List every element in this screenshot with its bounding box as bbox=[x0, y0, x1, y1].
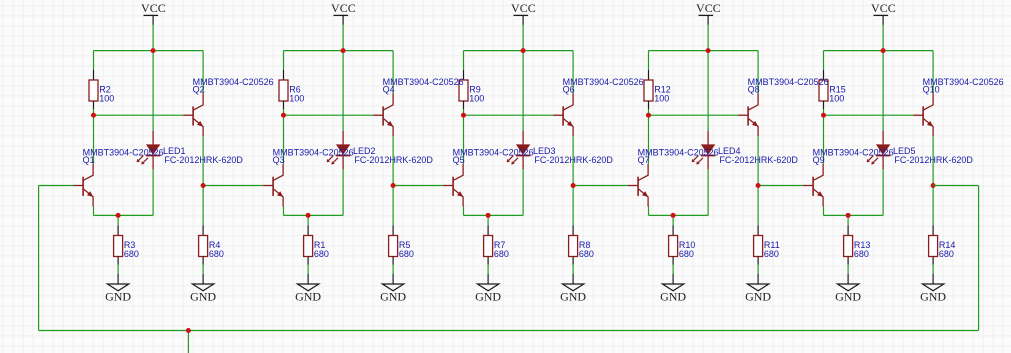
wire LED5 cathode down bbox=[882, 169, 884, 215]
wire LED4 cathode down bbox=[707, 169, 709, 215]
LED LED2 (FC-2012HRK-620D) bbox=[327, 131, 351, 169]
transistor Q1 (NPN MMBT3904) bbox=[73, 164, 93, 207]
svg-text:680: 680 bbox=[494, 249, 509, 259]
wire emitter of Q5 down bbox=[463, 206, 465, 215]
junction R7 top bbox=[486, 213, 491, 218]
wire down to R3 bbox=[117, 215, 119, 225]
ground symbol GND (R7) bbox=[477, 274, 498, 291]
junction R2 bottom / Q2 base bbox=[91, 113, 96, 118]
junction Q10 emitter / R14 bbox=[931, 183, 936, 188]
junction R15 bottom / Q10 base bbox=[821, 113, 826, 118]
svg-text:FC-2012HRK-620D: FC-2012HRK-620D bbox=[719, 155, 798, 165]
junction R9 bottom / Q6 base bbox=[461, 113, 466, 118]
junction R3 top bbox=[116, 213, 121, 218]
wire rail to R12 bbox=[648, 51, 650, 70]
transistor Q4 (NPN MMBT3904) bbox=[373, 94, 393, 137]
svg-text:MMBT3904-C20526: MMBT3904-C20526 bbox=[563, 77, 644, 87]
svg-text:MMBT3904-C20526: MMBT3904-C20526 bbox=[453, 148, 534, 158]
svg-text:Q6: Q6 bbox=[563, 85, 575, 95]
wire rail to R2 bbox=[93, 51, 95, 70]
ground symbol GND (R13) bbox=[837, 274, 858, 291]
wire rail to LED1 anode bbox=[152, 51, 154, 131]
resistor R8 (680 ohm) bbox=[569, 226, 578, 265]
svg-text:MMBT3904-C20526: MMBT3904-C20526 bbox=[193, 77, 274, 87]
wire down to R11 bbox=[757, 186, 759, 226]
svg-text:Q3: Q3 bbox=[273, 155, 285, 165]
wire stage 1 bottom bbox=[94, 214, 154, 216]
wire R14 to GND bbox=[932, 265, 934, 275]
svg-text:100: 100 bbox=[829, 93, 844, 103]
transistor Q3 (NPN MMBT3904) bbox=[263, 164, 283, 207]
wire down to R7 bbox=[487, 215, 489, 225]
wire stage 5 bottom bbox=[824, 214, 884, 216]
svg-text:MMBT3904-C20526: MMBT3904-C20526 bbox=[273, 148, 354, 158]
svg-text:FC-2012HRK-620D: FC-2012HRK-620D bbox=[354, 155, 433, 165]
wire R13 to GND bbox=[847, 265, 849, 275]
junction R12 bottom / Q8 base bbox=[646, 113, 651, 118]
resistor R10 (680 ohm) bbox=[669, 226, 678, 265]
node VCC rail stage 1 bbox=[94, 50, 204, 52]
junction R13 top bbox=[846, 213, 851, 218]
ground symbol GND (R4) bbox=[192, 274, 213, 291]
wire rail to collector of Q6 bbox=[572, 51, 574, 94]
wire rail to R9 bbox=[463, 51, 465, 70]
svg-text:100: 100 bbox=[289, 93, 304, 103]
resistor R12 (100 ohm) bbox=[644, 70, 653, 109]
svg-text:GND: GND bbox=[380, 290, 406, 304]
svg-text:FC-2012HRK-620D: FC-2012HRK-620D bbox=[164, 155, 243, 165]
svg-text:GND: GND bbox=[835, 290, 861, 304]
wire R6 to Q3 collector bbox=[283, 109, 285, 164]
junction VCC rail stage 5 bbox=[881, 48, 886, 53]
svg-text:GND: GND bbox=[745, 290, 771, 304]
wire VCC symbol to rail stage 1 bbox=[152, 25, 154, 51]
resistor R11 (680 ohm) bbox=[754, 226, 763, 265]
wire LED1 cathode down bbox=[152, 169, 154, 215]
wire R7 to GND bbox=[487, 265, 489, 275]
transistor Q8 (NPN MMBT3904) bbox=[738, 94, 758, 137]
svg-text:680: 680 bbox=[939, 249, 954, 259]
power symbol VCC stage 3 bbox=[514, 15, 529, 25]
svg-text:VCC: VCC bbox=[511, 1, 536, 15]
wire Q6 emitter to Q7 base bbox=[573, 185, 628, 187]
wire to base of Q6 bbox=[464, 114, 554, 116]
resistor R6 (100 ohm) bbox=[279, 70, 288, 109]
wire Q10 emitter to feedback bbox=[933, 185, 979, 187]
transistor Q2 (NPN MMBT3904) bbox=[183, 94, 203, 137]
wire down to R4 bbox=[202, 186, 204, 226]
wire down to R14 bbox=[932, 186, 934, 226]
svg-text:680: 680 bbox=[579, 249, 594, 259]
LED LED3 (FC-2012HRK-620D) bbox=[507, 131, 531, 169]
ground symbol GND (R3) bbox=[107, 274, 128, 291]
ground symbol GND (R11) bbox=[747, 274, 768, 291]
svg-text:VCC: VCC bbox=[696, 1, 721, 15]
svg-text:Q8: Q8 bbox=[748, 85, 760, 95]
wire R2 to Q1 collector bbox=[93, 109, 95, 164]
svg-text:100: 100 bbox=[99, 93, 114, 103]
svg-text:MMBT3904-C20526: MMBT3904-C20526 bbox=[83, 148, 164, 158]
wire rail to collector of Q8 bbox=[757, 51, 759, 94]
node VCC rail stage 2 bbox=[284, 50, 394, 52]
wire stage 3 bottom bbox=[464, 214, 524, 216]
svg-text:FC-2012HRK-620D: FC-2012HRK-620D bbox=[534, 155, 613, 165]
wire feedback right vertical bbox=[978, 186, 980, 331]
wire emitter of Q1 down bbox=[93, 206, 95, 215]
wire R5 to GND bbox=[392, 265, 394, 275]
wire R4 to GND bbox=[202, 265, 204, 275]
wire feedback bottom rail bbox=[39, 330, 979, 332]
svg-text:GND: GND bbox=[190, 290, 216, 304]
wire rail to collector of Q4 bbox=[392, 51, 394, 94]
svg-text:100: 100 bbox=[469, 93, 484, 103]
ground symbol GND (R5) bbox=[382, 274, 403, 291]
resistor R4 (680 ohm) bbox=[199, 226, 208, 265]
resistor R15 (100 ohm) bbox=[819, 70, 828, 109]
svg-text:680: 680 bbox=[209, 249, 224, 259]
resistor R5 (680 ohm) bbox=[389, 226, 398, 265]
resistor R9 (100 ohm) bbox=[459, 70, 468, 109]
svg-text:VCC: VCC bbox=[871, 1, 896, 15]
svg-text:Q1: Q1 bbox=[83, 155, 95, 165]
svg-text:GND: GND bbox=[660, 290, 686, 304]
junction R6 bottom / Q4 base bbox=[281, 113, 286, 118]
junction Q4 emitter / R5 bbox=[391, 183, 396, 188]
wire to base of Q8 bbox=[649, 114, 739, 116]
wire R9 to Q5 collector bbox=[463, 109, 465, 164]
svg-text:GND: GND bbox=[295, 290, 321, 304]
node VCC rail stage 3 bbox=[464, 50, 574, 52]
wire to base of Q2 bbox=[94, 114, 184, 116]
power symbol VCC stage 4 bbox=[699, 15, 714, 25]
wire R1 to GND bbox=[307, 265, 309, 275]
wire rail to LED2 anode bbox=[342, 51, 344, 131]
wire R3 to GND bbox=[117, 265, 119, 275]
junction VCC rail stage 3 bbox=[521, 48, 526, 53]
junction VCC rail stage 2 bbox=[341, 48, 346, 53]
junction VCC rail stage 1 bbox=[151, 48, 156, 53]
wire VCC symbol to rail stage 2 bbox=[342, 25, 344, 51]
resistor R13 (680 ohm) bbox=[844, 226, 853, 265]
svg-text:Q9: Q9 bbox=[813, 155, 825, 165]
wire to base of Q10 bbox=[824, 114, 914, 116]
node VCC rail stage 4 bbox=[649, 50, 759, 52]
resistor R3 (680 ohm) bbox=[114, 226, 123, 265]
power symbol VCC stage 1 bbox=[144, 15, 159, 25]
transistor Q9 (NPN MMBT3904) bbox=[803, 164, 823, 207]
wire to base of Q4 bbox=[284, 114, 374, 116]
ground symbol GND (R10) bbox=[662, 274, 683, 291]
svg-text:680: 680 bbox=[314, 249, 329, 259]
wire stage 4 bottom bbox=[649, 214, 709, 216]
transistor Q5 (NPN MMBT3904) bbox=[443, 164, 463, 207]
wire down to R10 bbox=[672, 215, 674, 225]
transistor Q10 (NPN MMBT3904) bbox=[913, 94, 933, 137]
junction bottom rail tap bbox=[186, 328, 191, 333]
wire stage 2 bottom bbox=[284, 214, 344, 216]
svg-text:VCC: VCC bbox=[331, 1, 356, 15]
wire bottom tap going off-page bbox=[187, 331, 189, 353]
svg-text:Q7: Q7 bbox=[638, 155, 650, 165]
wire emitter of Q2 down bbox=[202, 136, 204, 185]
junction Q8 emitter / R11 bbox=[756, 183, 761, 188]
ground symbol GND (R1) bbox=[297, 274, 318, 291]
wire emitter of Q9 down bbox=[823, 206, 825, 215]
transistor Q7 (NPN MMBT3904) bbox=[628, 164, 648, 207]
svg-text:680: 680 bbox=[764, 249, 779, 259]
wire Q1 base feedback left segment bbox=[39, 185, 74, 187]
svg-text:Q5: Q5 bbox=[453, 155, 465, 165]
junction R10 top bbox=[671, 213, 676, 218]
ground symbol GND (R8) bbox=[562, 274, 583, 291]
wire rail to LED4 anode bbox=[707, 51, 709, 131]
wire Q8 emitter to Q9 base bbox=[758, 185, 803, 187]
svg-text:Q4: Q4 bbox=[383, 85, 395, 95]
LED LED5 (FC-2012HRK-620D) bbox=[867, 131, 891, 169]
transistor Q6 (NPN MMBT3904) bbox=[553, 94, 573, 137]
junction VCC rail stage 4 bbox=[706, 48, 711, 53]
svg-text:GND: GND bbox=[475, 290, 501, 304]
wire LED3 cathode down bbox=[522, 169, 524, 215]
wire emitter of Q7 down bbox=[648, 206, 650, 215]
wire rail to R15 bbox=[823, 51, 825, 70]
ground symbol GND (R14) bbox=[922, 274, 943, 291]
node VCC rail stage 5 bbox=[824, 50, 934, 52]
wire rail to LED3 anode bbox=[522, 51, 524, 131]
wire emitter of Q4 down bbox=[392, 136, 394, 185]
wire Q4 emitter to Q5 base bbox=[393, 185, 443, 187]
wire down to R1 bbox=[307, 215, 309, 225]
wire Q2 emitter to Q3 base bbox=[203, 185, 263, 187]
resistor R2 (100 ohm) bbox=[89, 70, 98, 109]
wire R11 to GND bbox=[757, 265, 759, 275]
svg-text:MMBT3904-C20526: MMBT3904-C20526 bbox=[813, 148, 894, 158]
wire R15 to Q9 collector bbox=[823, 109, 825, 164]
power symbol VCC stage 2 bbox=[334, 15, 349, 25]
wire R12 to Q7 collector bbox=[648, 109, 650, 164]
junction R1 top bbox=[306, 213, 311, 218]
wire emitter of Q8 down bbox=[757, 136, 759, 185]
svg-text:GND: GND bbox=[920, 290, 946, 304]
svg-text:GND: GND bbox=[105, 290, 131, 304]
svg-text:100: 100 bbox=[654, 93, 669, 103]
wire R8 to GND bbox=[572, 265, 574, 275]
junction Q2 emitter / R4 bbox=[201, 183, 206, 188]
wire emitter of Q10 down bbox=[932, 136, 934, 185]
resistor R14 (680 ohm) bbox=[929, 226, 938, 265]
wire down to R13 bbox=[847, 215, 849, 225]
svg-text:680: 680 bbox=[854, 249, 869, 259]
svg-text:GND: GND bbox=[560, 290, 586, 304]
svg-text:MMBT3904-C20526: MMBT3904-C20526 bbox=[383, 77, 464, 87]
svg-text:Q10: Q10 bbox=[923, 85, 940, 95]
svg-text:680: 680 bbox=[399, 249, 414, 259]
svg-text:MMBT3904-C20526: MMBT3904-C20526 bbox=[638, 148, 719, 158]
wire LED2 cathode down bbox=[342, 169, 344, 215]
resistor R7 (680 ohm) bbox=[484, 226, 493, 265]
wire emitter of Q3 down bbox=[283, 206, 285, 215]
wire down to R8 bbox=[572, 186, 574, 226]
wire VCC symbol to rail stage 3 bbox=[522, 25, 524, 51]
wire down to R5 bbox=[392, 186, 394, 226]
wire rail to collector of Q10 bbox=[932, 51, 934, 94]
svg-text:VCC: VCC bbox=[141, 1, 166, 15]
wire feedback left vertical bbox=[38, 186, 40, 331]
resistor R1 (680 ohm) bbox=[304, 226, 313, 265]
LED LED1 (FC-2012HRK-620D) bbox=[137, 131, 161, 169]
LED LED4 (FC-2012HRK-620D) bbox=[692, 131, 716, 169]
svg-text:FC-2012HRK-620D: FC-2012HRK-620D bbox=[894, 155, 973, 165]
power symbol VCC stage 5 bbox=[874, 15, 889, 25]
svg-text:MMBT3904-C20526: MMBT3904-C20526 bbox=[748, 77, 829, 87]
wire rail to LED5 anode bbox=[882, 51, 884, 131]
wire rail to R6 bbox=[283, 51, 285, 70]
svg-text:680: 680 bbox=[679, 249, 694, 259]
svg-text:Q2: Q2 bbox=[193, 85, 205, 95]
wire R10 to GND bbox=[672, 265, 674, 275]
wire VCC symbol to rail stage 5 bbox=[882, 25, 884, 51]
wire VCC symbol to rail stage 4 bbox=[707, 25, 709, 51]
svg-text:680: 680 bbox=[124, 249, 139, 259]
wire rail to collector of Q2 bbox=[202, 51, 204, 94]
wire emitter of Q6 down bbox=[572, 136, 574, 185]
junction Q6 emitter / R8 bbox=[571, 183, 576, 188]
